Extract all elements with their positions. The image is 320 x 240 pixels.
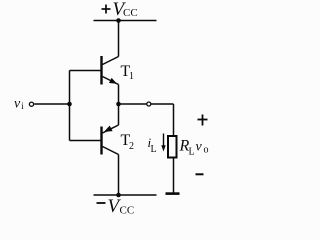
transistor T1 (NPN) xyxy=(102,56,119,85)
label RL xyxy=(179,138,195,158)
label vo xyxy=(196,140,209,156)
minus sign (vo polarity) xyxy=(196,173,204,175)
-VCC supply label xyxy=(97,196,135,217)
+VCC supply label xyxy=(102,0,138,20)
svg-text:2: 2 xyxy=(129,141,134,152)
wire (right branch upper vertical) xyxy=(173,104,175,135)
label T1 xyxy=(121,63,135,82)
wire (output horizontal) xyxy=(119,103,174,105)
wire (base of T2) xyxy=(70,140,101,142)
svg-text:L: L xyxy=(151,144,157,155)
svg-text:CC: CC xyxy=(123,7,138,19)
transistor T2 (PNP) xyxy=(102,125,119,155)
wire (left vertical between bases) xyxy=(69,71,71,141)
label vi xyxy=(14,97,24,112)
+VCC rail xyxy=(94,20,157,22)
label T2 xyxy=(121,132,135,152)
wire (T2 collector to -VCC rail) xyxy=(118,155,120,196)
current iL arrow xyxy=(161,134,165,152)
svg-text:CC: CC xyxy=(120,205,135,217)
wire (emitter bus vertical, T1 emitter to T2 emitter) xyxy=(118,85,120,126)
node (input junction) xyxy=(67,102,72,107)
plus sign (vo polarity) xyxy=(198,115,208,126)
svg-text:v: v xyxy=(196,140,203,155)
svg-text:v: v xyxy=(14,97,21,112)
wire (right branch lower vertical) xyxy=(173,158,175,193)
svg-text:o: o xyxy=(204,145,209,156)
wire (collector of T1 to +VCC) xyxy=(118,21,120,57)
ground (bar under RL) xyxy=(166,192,180,195)
output terminal (open circle) xyxy=(147,102,151,106)
input terminal (open circle) xyxy=(29,102,33,106)
label iL xyxy=(148,135,157,155)
node (output junction) xyxy=(116,102,121,107)
junction dot (+VCC rail) xyxy=(116,18,121,23)
wire (input) xyxy=(34,103,69,105)
-VCC rail xyxy=(94,194,157,196)
svg-text:1: 1 xyxy=(129,71,134,82)
junction dot (-VCC rail) xyxy=(116,193,121,198)
svg-text:L: L xyxy=(189,147,195,158)
resistor RL xyxy=(168,136,177,158)
wire (base of T1) xyxy=(70,70,101,72)
